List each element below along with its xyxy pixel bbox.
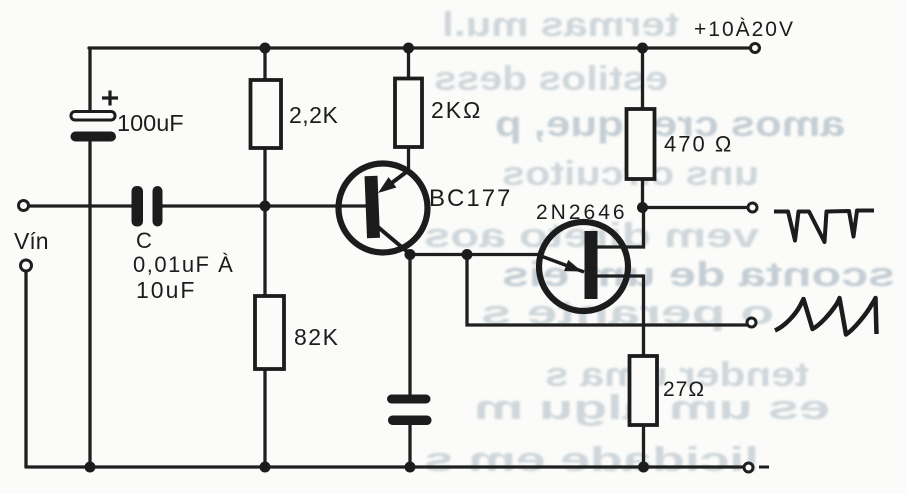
svg-text:10uF: 10uF [136, 277, 196, 303]
wire top supply rail [89, 46, 751, 49]
wire BC177 collector node [410, 255, 539, 468]
junction supply / 470 node [637, 43, 648, 54]
terminal negative ground [744, 463, 753, 472]
junction base2 / pulse output node [637, 202, 648, 213]
waveform pulses output [774, 211, 874, 243]
junction ground / capacitor node [405, 462, 416, 473]
junction base node [260, 201, 271, 212]
svg-text:+10À20V: +10À20V [694, 18, 795, 41]
resistor R 27 [630, 356, 658, 425]
wire left vertical branch [88, 48, 91, 467]
svg-text:27Ω: 27Ω [663, 378, 705, 401]
junction ground / 27 node [638, 462, 649, 473]
wire bias divider vertical [263, 48, 266, 467]
svg-text:470 Ω: 470 Ω [664, 132, 733, 157]
wire bottom ground rail [26, 465, 744, 468]
junction ground / 100uF node [85, 462, 96, 473]
wire UJT base1 [591, 276, 644, 356]
terminal sawtooth output [747, 318, 756, 327]
minus sign at ground terminal [759, 466, 769, 469]
terminal input return [21, 260, 32, 271]
resistor R 470 [627, 109, 655, 179]
junction ground / 82K node [260, 462, 271, 473]
transistor Q1 BC177 [339, 164, 428, 255]
wire 470 branch [643, 48, 749, 208]
terminal pulse output [748, 203, 757, 212]
svg-text:100uF: 100uF [117, 110, 184, 136]
svg-text:2,2K: 2,2K [289, 102, 338, 128]
wire UJT base2 [591, 208, 644, 248]
svg-text:2KΩ: 2KΩ [431, 97, 482, 123]
wire 2K collector branch [407, 48, 410, 171]
junction emitter tap node [462, 249, 473, 260]
resistor R 82K [255, 296, 284, 369]
junction supply / 2,2K node [260, 43, 271, 54]
svg-text:termas mu.l: termas mu.l [442, 6, 679, 44]
capacitor C coupling [132, 186, 163, 227]
capacitor timing (bottom) [387, 395, 432, 426]
wire lower input terminal drop [24, 271, 27, 467]
capacitor 100uF electrolytic [71, 91, 119, 142]
svg-text:2N2646: 2N2646 [536, 201, 628, 224]
svg-text:BC177: BC177 [429, 185, 512, 212]
resistor R 2K [395, 79, 422, 148]
svg-text:C: C [136, 228, 152, 253]
junction collector node [405, 249, 416, 260]
transistor Q2 2N2646 [539, 222, 628, 311]
svg-text:licidade em s: licidade em s [424, 441, 759, 479]
svg-text:82K: 82K [294, 324, 339, 350]
bleed-through mirrored text from reverse page [424, 6, 895, 479]
svg-text:estilos dess: estilos dess [434, 60, 668, 98]
waveform sawtooth output [775, 298, 877, 335]
terminal Vin input [19, 201, 29, 211]
wire sawtooth output tap [467, 255, 747, 326]
resistor R 2,2K [251, 80, 282, 148]
svg-text:0,01uF À: 0,01uF À [133, 252, 234, 277]
terminal +V supply [751, 44, 760, 53]
wire input line [29, 204, 366, 207]
svg-text:Vín: Vín [14, 228, 49, 254]
wire 27 ohm to ground [642, 425, 645, 467]
junction supply / 2K node [403, 43, 414, 54]
